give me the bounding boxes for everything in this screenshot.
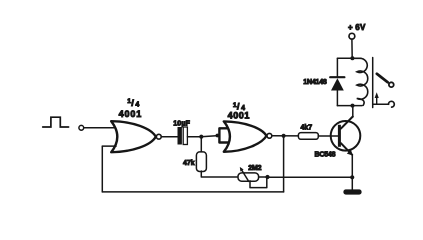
gate2 input tie bar with stubs <box>219 128 229 142</box>
relay switch arm <box>377 74 388 82</box>
wire gate1 output to capacitor C1 <box>161 136 177 138</box>
relay actuation arrow shaft <box>376 97 378 104</box>
relay actuation arrow head <box>375 92 379 98</box>
svg-text:4001: 4001 <box>119 109 143 119</box>
feedback wire from node B down <box>283 136 285 192</box>
transistor Q1 collector stroke <box>341 117 353 129</box>
+6V terminal circle <box>349 33 355 39</box>
preset VR1 2M2 body <box>238 173 259 181</box>
junction dot top rail <box>350 56 354 60</box>
wire input terminal to gate 1 input A <box>84 127 116 129</box>
wire feedback to gate1 input B <box>102 145 116 147</box>
svg-text:2M2: 2M2 <box>248 165 261 172</box>
wire +6V to relay top rail <box>351 39 353 58</box>
node B junction dot <box>282 134 286 138</box>
wire top rail to diode cathode <box>336 58 338 76</box>
svg-text:BC548: BC548 <box>315 152 336 159</box>
wire node A down to R2 47k <box>200 137 202 152</box>
ground junction dot <box>350 175 354 179</box>
input terminal circle <box>79 125 84 130</box>
svg-text:4k7: 4k7 <box>301 125 313 132</box>
NOR gate U1a output bubble <box>156 134 161 139</box>
NOR gate U1a body <box>111 121 156 152</box>
node A junction dot <box>199 135 203 139</box>
wire collector to relay rail <box>352 106 354 118</box>
relay top rail wire <box>337 57 361 59</box>
wire 2M2 node to emitter ground node <box>268 176 353 178</box>
feedback wire bottom run <box>102 191 283 193</box>
svg-text:4001: 4001 <box>228 111 250 121</box>
relay core line <box>372 58 374 108</box>
wire R2 bottom to 2M2 <box>201 171 237 177</box>
svg-text:10µF: 10µF <box>173 121 190 128</box>
feedback wire left rise <box>101 146 103 192</box>
transistor Q1 emitter arrowhead <box>347 150 353 156</box>
relay bottom rail wire <box>337 105 362 107</box>
junction dot right of 2M2 <box>265 175 269 179</box>
preset VR1 wiper diagonal <box>242 170 249 182</box>
wire node A to gate2 input tie bar <box>201 136 218 137</box>
resistor R1 4k7 body <box>298 133 318 140</box>
wire 2M2 right side <box>259 176 268 178</box>
junction dot bottom rail (collector tap) <box>351 104 355 108</box>
transistor Q1 emitter stroke <box>341 143 352 155</box>
relay coil RLA <box>352 58 367 105</box>
svg-text:1N4148: 1N4148 <box>303 79 327 86</box>
diode D1 cathode bar <box>330 76 344 78</box>
NOR gate U1b output bubble <box>267 133 272 138</box>
relay contact terminal wire <box>373 103 388 105</box>
input pulse waveform <box>43 117 69 127</box>
wire gate2 output to node B <box>272 135 298 137</box>
junction dot at gate2 input bar <box>216 134 220 138</box>
diode D1 triangle <box>331 78 344 90</box>
wire R1 to transistor base <box>318 135 338 137</box>
wiper return wire (U shape) <box>250 177 267 188</box>
transistor Q1 base bar <box>338 125 341 147</box>
capacitor C1 left plate (filled) <box>178 127 182 145</box>
NOR gate U1b body <box>224 121 267 151</box>
preset VR1 wiper arrowhead <box>240 167 244 172</box>
wire C1 to node A <box>187 136 201 138</box>
transistor Q1 circle <box>331 121 361 151</box>
relay switch moving contact circle <box>389 82 394 87</box>
wire emitter to ground node <box>351 155 353 190</box>
svg-text:47k: 47k <box>183 160 195 167</box>
wire diode anode to bottom rail <box>336 91 338 106</box>
capacitor C1 right plate (hollow) <box>183 127 187 145</box>
relay fixed contact hook <box>388 101 394 107</box>
svg-text:+ 6V: + 6V <box>348 23 366 32</box>
resistor R2 47k body <box>196 152 206 172</box>
ground symbol bar <box>343 189 361 194</box>
